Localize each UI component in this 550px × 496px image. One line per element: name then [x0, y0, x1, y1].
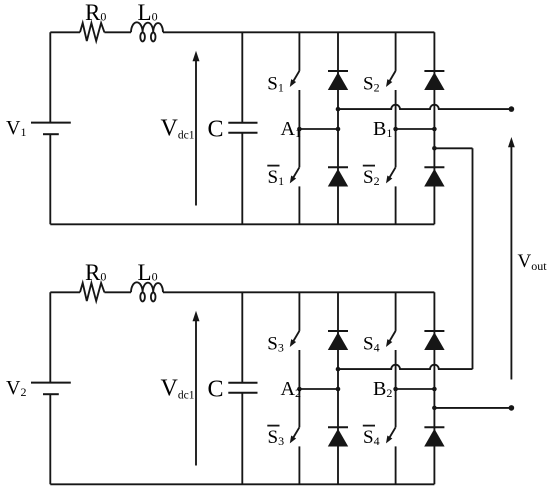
battery V1: [31, 122, 71, 124]
diode leg D4 vertical: [433, 292, 435, 484]
output terminal dot lower: [509, 405, 515, 411]
capacitor C cell1 plates: [228, 122, 257, 124]
arrow Vdc2 direction: [195, 321, 197, 466]
node A2 wire: [299, 388, 338, 390]
node B1 tap dot: [432, 146, 437, 151]
wire top rail cell1 between R0 and L0: [104, 31, 131, 33]
capacitor C cell1 upper leg: [241, 32, 243, 122]
switch S2-bar leg lower: [395, 186, 397, 224]
svg-text:C: C: [208, 377, 224, 403]
node A1 wire: [299, 128, 338, 130]
resistor R0 cell1: [80, 23, 104, 41]
diode D1 upper: [328, 70, 348, 72]
node B2 tap dot: [432, 406, 437, 411]
diode D1 lower: [328, 166, 348, 168]
diode D4 upper: [424, 330, 444, 332]
switch S1 blade: [293, 71, 300, 82]
inductor L0 cell2: [131, 282, 163, 292]
wire A1 tap to output terminal with crossover hops: [338, 105, 511, 109]
switch S2 leg upper: [395, 32, 397, 71]
wire left rail lower cell2: [49, 394, 51, 484]
switch S3 blade: [293, 331, 300, 342]
node A2 tap dot: [336, 367, 341, 372]
junction dot B2 left: [393, 387, 398, 392]
diode leg D3 vertical: [337, 292, 339, 484]
diode leg D1 vertical: [337, 32, 339, 224]
diode D2 upper: [424, 70, 444, 72]
diode D3 lower: [328, 426, 348, 428]
wire bottom rail cell1: [50, 223, 434, 225]
switch S1 leg upper: [298, 32, 300, 71]
junction dot A2 left: [297, 387, 302, 392]
switch S4 blade: [389, 331, 396, 342]
switch S3 leg upper: [298, 292, 300, 331]
switch S1-bar leg lower: [298, 186, 300, 224]
wire left rail upper cell1: [49, 32, 51, 122]
wire B1 tap horizontal: [434, 147, 472, 149]
switch S3-bar leg lower: [298, 446, 300, 484]
wire left rail lower cell1: [49, 134, 51, 224]
switch S4-bar blade: [389, 427, 396, 438]
diode D2 lower: [424, 166, 444, 168]
switch S3 leg middle: [298, 350, 300, 427]
wire B2 tap to output terminal: [434, 407, 511, 409]
inductor L0 cell1: [131, 22, 163, 32]
junction dot A2 right: [336, 387, 341, 392]
diode leg D2 vertical: [433, 32, 435, 224]
node B2 wire: [396, 388, 435, 390]
junction dot B2 right: [432, 387, 437, 392]
capacitor C cell2 plates: [228, 382, 257, 384]
switch S1 leg middle: [298, 90, 300, 167]
arrow Vout: [510, 147, 512, 380]
svg-text:C: C: [208, 117, 224, 143]
switch S2-bar blade: [389, 167, 396, 178]
switch S4-bar leg lower: [395, 446, 397, 484]
wire A2 tap with crossover hops to vertical link: [338, 365, 473, 369]
switch S4 leg upper: [395, 292, 397, 331]
wire top rail cell1 left segment: [50, 31, 80, 33]
junction dot A1 right: [336, 127, 341, 132]
node B1 wire: [396, 128, 435, 130]
wire left rail upper cell2: [49, 292, 51, 382]
wire B1 to A2 vertical link: [472, 148, 474, 369]
switch S4 leg middle: [395, 350, 397, 427]
switch S2 blade: [389, 71, 396, 82]
battery V2: [31, 382, 71, 384]
switch S2 leg middle: [395, 90, 397, 167]
junction dot B1 right: [432, 127, 437, 132]
wire top rail cell2 left segment: [50, 291, 80, 293]
capacitor C cell1 lower leg: [241, 133, 243, 225]
capacitor C cell2 upper leg: [241, 292, 243, 382]
switch S1-bar blade: [293, 167, 300, 178]
capacitor C cell2 lower leg: [241, 393, 243, 485]
arrow Vdc1 direction: [195, 61, 197, 206]
resistor R0 cell2: [80, 283, 104, 301]
wire top rail cell2 right segment: [163, 291, 434, 293]
wire top rail cell2 between R0 and L0: [104, 291, 131, 293]
junction dot A1 left: [297, 127, 302, 132]
junction dot B1 left: [393, 127, 398, 132]
diode D4 lower: [424, 426, 444, 428]
diode D3 upper: [328, 330, 348, 332]
output terminal dot upper: [509, 106, 515, 112]
node A1 output tap dot: [336, 107, 341, 112]
switch S3-bar blade: [293, 427, 300, 438]
wire top rail cell1 right segment: [163, 31, 434, 33]
wire bottom rail cell2: [50, 483, 434, 485]
